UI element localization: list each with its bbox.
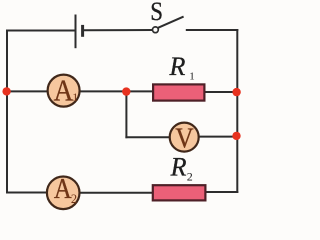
ammeter A1: [48, 75, 80, 107]
wire: top row left to battery: [7, 30, 75, 32]
node at left rail row1: [2, 87, 10, 95]
resistor R2: [153, 185, 206, 200]
wire: A1 to R1: [81, 90, 154, 92]
switch S lever: [158, 17, 184, 28]
wire: A2 to R2: [80, 192, 153, 194]
wire: R1 to right rail: [205, 91, 238, 93]
svg-text:2: 2: [71, 192, 77, 206]
resistor R1: [153, 84, 204, 100]
wire: switch to top-right corner: [187, 29, 238, 31]
svg-text:1: 1: [189, 70, 195, 82]
node at right rail row1: [232, 88, 240, 96]
wire: node drop to voltmeter row: [125, 92, 127, 138]
svg-text:2: 2: [187, 169, 193, 183]
svg-text:R: R: [169, 52, 186, 81]
svg-text:V: V: [175, 122, 194, 154]
wire: left rail: [6, 31, 8, 193]
svg-text:A: A: [54, 74, 74, 108]
svg-text:1: 1: [72, 90, 78, 104]
wire: elbow to voltmeter: [126, 136, 168, 138]
wire: battery to switch: [84, 29, 153, 31]
wire: row1 left to A1: [7, 90, 47, 92]
battery B1 long plate (+): [75, 15, 77, 49]
svg-text:A: A: [54, 174, 72, 205]
wire: right rail: [236, 30, 238, 192]
battery B1 short plate (-): [81, 25, 84, 37]
node between A1 and R1: [122, 87, 130, 95]
voltmeter V: [170, 123, 199, 152]
switch S pivot circle: [153, 27, 159, 33]
wire: bottom row left to A2: [7, 192, 47, 194]
wire: R2 to bottom-right elbow: [205, 191, 237, 193]
wire: voltmeter to right rail: [200, 136, 238, 138]
ammeter A2: [47, 177, 80, 210]
svg-text:R: R: [170, 152, 187, 181]
svg-text:S: S: [150, 0, 163, 26]
node at right rail voltmeter row: [232, 132, 240, 140]
